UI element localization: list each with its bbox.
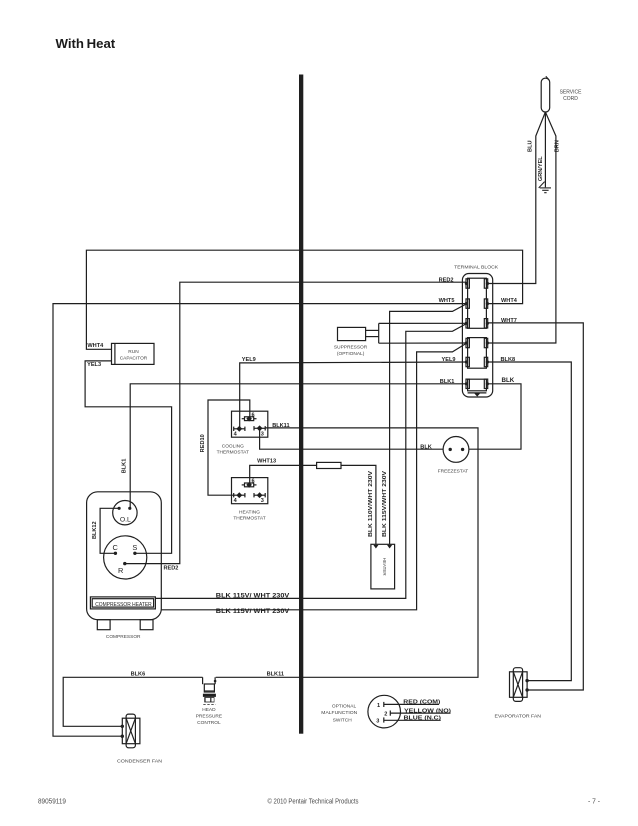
- head pressure control S4: [202, 677, 204, 684]
- compressor motor windings C S R: [104, 536, 147, 579]
- svg-text:BLU: BLU: [528, 140, 534, 152]
- evaporator fan M2: [510, 672, 528, 698]
- compressor heater HR2: [90, 597, 155, 609]
- svg-text:WHT4: WHT4: [87, 343, 104, 349]
- wire BRN (service cord to terminal 4): [487, 112, 556, 343]
- wire: suppressor leads: [366, 329, 379, 331]
- wire YEL9: terminal 5 to cooling thermostat 4: [240, 362, 467, 429]
- svg-text:BRN: BRN: [555, 140, 561, 152]
- svg-text:S: S: [132, 543, 137, 552]
- ground symbol: [539, 182, 545, 188]
- svg-text:BLK1: BLK1: [121, 459, 127, 474]
- svg-text:With Heat: With Heat: [56, 36, 116, 51]
- svg-text:OPTIONAL: OPTIONAL: [332, 704, 357, 710]
- svg-text:COMPRESSOR: COMPRESSOR: [106, 634, 141, 640]
- wire BLK8: terminal 5 to evaporator fan: [487, 362, 571, 681]
- inline resistor on WHT13: [317, 462, 341, 468]
- svg-text:C: C: [113, 543, 119, 552]
- svg-text:FREEZESTAT: FREEZESTAT: [438, 469, 469, 475]
- optional malfunction switch S5: [368, 695, 401, 728]
- wire BLK1: terminal 6 to compressor overload: [130, 384, 466, 509]
- wire WHT7: terminal 3 to evaporator fan: [487, 323, 583, 690]
- svg-text:YEL3: YEL3: [87, 362, 101, 368]
- svg-text:O.L: O.L: [120, 517, 131, 524]
- suppressor (optional): [338, 327, 366, 340]
- svg-text:MALFUNCTION: MALFUNCTION: [321, 710, 358, 716]
- svg-text:BLK11: BLK11: [267, 672, 284, 678]
- condenser fan M3: [122, 718, 140, 744]
- wire: suppressor bottom branch to terminal 4: [379, 342, 467, 344]
- wire: compressor heater lead 2 to terminal 4: [161, 343, 466, 610]
- wire: freezestat to terminal 6 (BLK): [469, 384, 521, 449]
- svg-text:BLK: BLK: [502, 377, 515, 384]
- wire BLK6: head pressure control to condenser fan: [63, 677, 202, 726]
- wire BLK: cooling thermostat 3 to freezestat: [260, 428, 444, 449]
- svg-text:CONDENSER FAN: CONDENSER FAN: [117, 758, 163, 764]
- wire WHT5: terminal 2 to condenser fan: [53, 304, 466, 737]
- svg-text:6: 6: [252, 412, 255, 418]
- terminal tabs (pins 1-6): [466, 279, 469, 288]
- svg-text:CAPACITOR: CAPACITOR: [120, 356, 148, 362]
- compressor feet: [97, 620, 110, 630]
- svg-text:SWITCH: SWITCH: [333, 718, 352, 724]
- svg-text:SUPPRESSOR: SUPPRESSOR: [334, 345, 368, 351]
- svg-text:6: 6: [252, 479, 255, 485]
- service cord plug P1: [541, 78, 550, 112]
- svg-text:RED2: RED2: [164, 566, 179, 572]
- svg-text:COMPRESSOR HEATER: COMPRESSOR HEATER: [95, 602, 152, 608]
- wire: compressor heater lead 1 to terminal 3: [155, 324, 466, 599]
- svg-text:HEATING: HEATING: [239, 509, 260, 515]
- svg-text:3: 3: [376, 719, 379, 725]
- svg-text:89059119: 89059119: [38, 797, 66, 806]
- svg-text:BLK12: BLK12: [92, 521, 98, 539]
- svg-text:BLK 115V/ WHT 230V: BLK 115V/ WHT 230V: [216, 609, 289, 615]
- svg-text:CONTROL: CONTROL: [197, 720, 221, 726]
- svg-text:RED10: RED10: [200, 434, 206, 452]
- svg-text:BLK: BLK: [420, 444, 432, 450]
- wire BLK12: overload to C: [100, 508, 119, 553]
- svg-text:RUN: RUN: [128, 349, 139, 355]
- svg-text:WHT5: WHT5: [439, 298, 455, 304]
- wire: thick vertical divider bus: [299, 75, 303, 734]
- wire YEL3: run capacitor to compressor S: [85, 361, 172, 553]
- wire GRN/YEL (ground lead): [544, 112, 546, 187]
- svg-text:(OPTIONAL): (OPTIONAL): [337, 351, 365, 357]
- wire WHT13: heating thermostat 6 to heater: [250, 465, 317, 483]
- svg-text:© 2010 Pentair Technical Produ: © 2010 Pentair Technical Products: [268, 797, 359, 806]
- svg-text:3: 3: [261, 498, 264, 504]
- wire RED10: cooling thermostat 6 to heating thermostat 4: [208, 400, 250, 495]
- svg-text:CORD: CORD: [563, 96, 578, 102]
- svg-text:BLK6: BLK6: [131, 672, 146, 678]
- svg-text:SERVICE: SERVICE: [560, 90, 583, 96]
- overload O.L: [113, 501, 137, 525]
- svg-text:BLK 110V/WHT 230V: BLK 110V/WHT 230V: [368, 471, 374, 537]
- svg-text:THERMOSTAT: THERMOSTAT: [233, 516, 265, 522]
- svg-text:BLK11: BLK11: [272, 423, 289, 429]
- svg-text:BLK 115V/ WHT 230V: BLK 115V/ WHT 230V: [216, 593, 289, 599]
- svg-text:GRN/YEL: GRN/YEL: [538, 156, 544, 181]
- wire BLUE (N.C): [384, 719, 441, 721]
- svg-text:YELLOW (NO): YELLOW (NO): [404, 708, 451, 714]
- pin 3: [254, 427, 265, 429]
- wire WHT4: terminal 2 loop to run capacitor: [86, 250, 522, 349]
- wire RED2: compressor R to terminal 1: [125, 282, 467, 563]
- compressor M1: [87, 492, 162, 620]
- svg-text:WHT13: WHT13: [257, 459, 276, 465]
- heater HR1: [371, 544, 395, 589]
- svg-text:TERMINAL BLOCK: TERMINAL BLOCK: [454, 264, 499, 270]
- svg-text:3: 3: [261, 432, 264, 438]
- svg-text:RED (COM): RED (COM): [403, 700, 440, 706]
- wire RED (COM): [384, 703, 439, 705]
- svg-text:HEATER: HEATER: [382, 558, 387, 577]
- freezestat S3: [443, 437, 469, 463]
- svg-text:R: R: [118, 566, 123, 575]
- svg-text:YEL9: YEL9: [242, 357, 256, 363]
- pin 3: [254, 494, 265, 496]
- svg-text:COOLING: COOLING: [222, 443, 244, 449]
- heating thermostat S2: [232, 478, 268, 504]
- svg-text:BLK 115V/WHT 230V: BLK 115V/WHT 230V: [382, 471, 388, 537]
- pin 6: [245, 483, 254, 487]
- wire BLK11: cooling thermostat 3 to head pressure control: [216, 428, 478, 677]
- svg-text:EVAPORATOR FAN: EVAPORATOR FAN: [495, 714, 542, 720]
- svg-text:BLUE (N.C): BLUE (N.C): [404, 716, 442, 722]
- wire: suppressor top branch to terminal 3: [379, 322, 467, 324]
- cooling thermostat S1: [232, 411, 268, 437]
- pin 4: [234, 494, 245, 496]
- svg-text:HEAD: HEAD: [202, 707, 216, 713]
- wire YELLOW (NO): [390, 712, 450, 714]
- wire BLU (service cord to terminal 1): [487, 112, 545, 284]
- pin 6: [245, 417, 254, 421]
- run capacitor C1: [112, 343, 155, 364]
- pin 4: [234, 428, 245, 430]
- svg-text:THERMOSTAT: THERMOSTAT: [217, 450, 249, 456]
- svg-text:2: 2: [384, 712, 387, 718]
- wire: heater right lead to terminal 2 (diagonal): [390, 304, 467, 544]
- svg-text:- 7 -: - 7 -: [588, 797, 601, 806]
- svg-text:PRESSURE: PRESSURE: [196, 714, 222, 720]
- svg-text:1: 1: [377, 703, 380, 709]
